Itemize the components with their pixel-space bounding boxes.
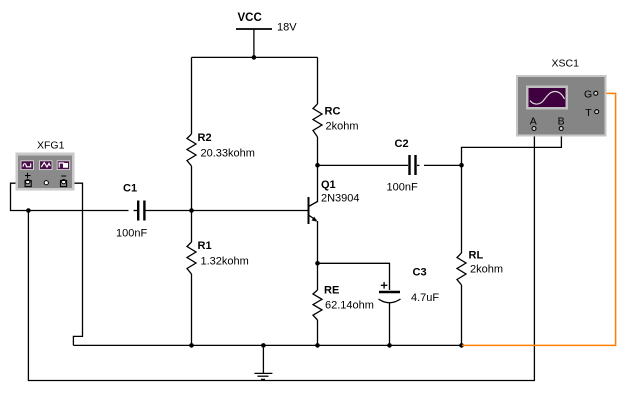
wire top rail bbox=[192, 56, 318, 58]
svg-text:20.33kohm: 20.33kohm bbox=[201, 147, 255, 159]
wire C1 to base bbox=[146, 210, 309, 212]
svg-text:XFG1: XFG1 bbox=[37, 139, 65, 151]
XFG1 sine button bbox=[21, 161, 33, 170]
capacitor C3 top plate bbox=[379, 291, 400, 294]
wire C2 to RL node bbox=[417, 164, 420, 166]
svg-text:2kohm: 2kohm bbox=[326, 120, 359, 132]
resistor R1 bbox=[187, 242, 196, 274]
resistor RC bbox=[313, 104, 322, 137]
svg-text:C1: C1 bbox=[123, 182, 137, 194]
wire RC bottom lead bbox=[317, 137, 319, 165]
wire input node to scope A bbox=[28, 131, 534, 381]
instrument XSC1 body bbox=[516, 75, 607, 137]
junction input node bbox=[26, 208, 31, 213]
svg-text:VCC: VCC bbox=[238, 12, 262, 24]
wire RL bottom lead bbox=[461, 285, 463, 345]
XSC1 terminal A bbox=[532, 127, 536, 131]
capacitor C1 lead gap stub bbox=[134, 210, 138, 212]
junction RL/ground rail bbox=[459, 343, 464, 348]
junction emitter node bbox=[315, 261, 320, 266]
junction top rail bbox=[252, 55, 257, 60]
XSC1 terminal B bbox=[559, 127, 563, 131]
svg-text:RE: RE bbox=[324, 284, 339, 296]
junction RE/ground rail bbox=[315, 343, 320, 348]
wire R2 bottom lead bbox=[191, 166, 193, 211]
wire XFG1 plus to C1 bbox=[11, 183, 129, 210]
capacitor C3 curved plate bbox=[379, 299, 401, 303]
wire R1 bottom lead bbox=[191, 274, 193, 345]
wire emitter node to C3 bbox=[318, 263, 390, 290]
wire emitter lead bbox=[317, 221, 319, 263]
resistor RL bbox=[457, 253, 466, 285]
svg-text:62.14ohm: 62.14ohm bbox=[325, 299, 374, 311]
XFG1 common terminal bbox=[44, 181, 48, 185]
wire RE top lead bbox=[317, 263, 319, 290]
transistor Q1 emitter arrow bbox=[312, 217, 318, 222]
svg-text:100nF: 100nF bbox=[116, 227, 147, 239]
svg-text:2kohm: 2kohm bbox=[470, 264, 503, 276]
XSC1 terminal T bbox=[595, 110, 599, 114]
wire RL top lead bbox=[461, 165, 463, 253]
junction C2/RL node bbox=[459, 163, 464, 168]
power VCC bar bbox=[236, 28, 272, 30]
svg-text:B: B bbox=[558, 115, 565, 127]
svg-text:G: G bbox=[584, 89, 592, 101]
wire XFG1 minus to ground rail bbox=[67, 183, 83, 345]
resistor R2 bbox=[187, 134, 196, 166]
capacitor C3 plus sign bbox=[381, 284, 388, 286]
junction ground symbol node bbox=[261, 343, 266, 348]
svg-text:R1: R1 bbox=[198, 240, 212, 252]
ground symbol bbox=[262, 345, 264, 373]
svg-text:R2: R2 bbox=[198, 132, 212, 144]
wire collector node to C2 bbox=[318, 164, 409, 166]
junction base/divider node bbox=[189, 208, 194, 213]
svg-text:A: A bbox=[530, 115, 537, 127]
junction C3/ground rail bbox=[387, 343, 392, 348]
wire ground rail bbox=[73, 344, 461, 346]
svg-text:C3: C3 bbox=[413, 266, 427, 278]
XSC1 screen bbox=[526, 86, 568, 110]
transistor Q1 collector diagonal bbox=[309, 202, 318, 207]
wire VCC stem bbox=[253, 29, 255, 57]
transistor Q1 emitter diagonal bbox=[309, 215, 317, 221]
svg-text:4.7uF: 4.7uF bbox=[411, 292, 439, 304]
wire RC top lead bbox=[317, 57, 319, 104]
svg-text:T: T bbox=[585, 107, 592, 119]
capacitor C1 plates bbox=[137, 201, 139, 221]
wire scope B to RL node bbox=[462, 131, 562, 166]
XFG1 minus terminal bbox=[61, 180, 67, 187]
XFG1 minus terminal mark bbox=[61, 175, 66, 177]
XSC1 terminal G bbox=[594, 91, 598, 95]
svg-text:C2: C2 bbox=[395, 138, 409, 150]
svg-text:18V: 18V bbox=[277, 22, 297, 34]
transistor Q1 base bar bbox=[308, 197, 310, 224]
wire collector lead bbox=[317, 165, 319, 202]
XFG1 square button bbox=[57, 161, 69, 170]
wire C3 bottom lead bbox=[389, 303, 391, 346]
XFG1 plus terminal bbox=[25, 180, 31, 187]
junction R1/ground rail bbox=[189, 343, 194, 348]
wire R1 top lead bbox=[191, 211, 193, 243]
svg-text:100nF: 100nF bbox=[387, 181, 418, 193]
wire orange scope G lead bbox=[462, 93, 616, 345]
svg-text:RC: RC bbox=[325, 105, 341, 117]
instrument XFG1 body bbox=[16, 153, 75, 191]
wire RE bottom lead bbox=[317, 320, 319, 345]
junction collector node bbox=[315, 163, 320, 168]
XFG1 plus terminal mark bbox=[25, 173, 31, 178]
svg-text:RL: RL bbox=[469, 249, 484, 261]
wire R2 top lead bbox=[191, 57, 193, 134]
capacitor C2 plates bbox=[408, 155, 410, 175]
svg-text:1.32kohm: 1.32kohm bbox=[201, 255, 249, 267]
svg-text:Q1: Q1 bbox=[321, 179, 336, 191]
svg-text:XSC1: XSC1 bbox=[552, 57, 580, 69]
XFG1 triangle button bbox=[40, 161, 52, 170]
svg-text:2N3904: 2N3904 bbox=[321, 193, 360, 205]
resistor RE bbox=[313, 290, 322, 320]
